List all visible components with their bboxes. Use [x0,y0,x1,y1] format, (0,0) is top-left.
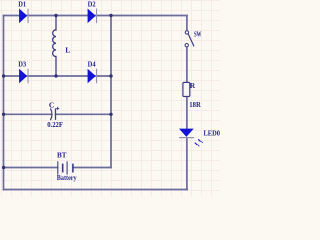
svg-text:C: C [49,100,54,109]
svg-text:R: R [190,81,196,90]
svg-text:D4: D4 [88,59,96,68]
svg-text:SW: SW [194,29,202,38]
svg-text:18R: 18R [189,100,201,109]
svg-text:Battery: Battery [57,173,77,182]
svg-text:0.22F: 0.22F [47,120,63,129]
svg-text:BT: BT [57,151,67,160]
svg-text:LED0: LED0 [204,128,221,137]
svg-text:D1: D1 [18,0,26,8]
svg-text:D2: D2 [88,0,96,8]
svg-text:L: L [65,45,70,54]
svg-text:D3: D3 [18,59,26,68]
